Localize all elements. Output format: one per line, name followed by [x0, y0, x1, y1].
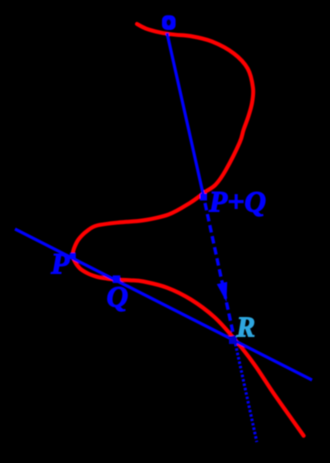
marker P+Q: [200, 194, 207, 201]
label O (identity element): [162, 15, 176, 30]
arrowhead on dashed segment: [217, 282, 227, 302]
marker Q: [113, 275, 121, 283]
dashed construction segment P+Q to R: [205, 203, 235, 340]
svg-text:Q: Q: [107, 281, 129, 314]
dashed segment below R: [235, 340, 257, 443]
marker R: [229, 336, 237, 344]
svg-text:P: P: [50, 248, 70, 281]
secant line through P and Q: [15, 229, 312, 380]
elliptic curve E (red cubic): [73, 24, 304, 436]
svg-text:R: R: [236, 313, 256, 344]
svg-text:P+Q: P+Q: [208, 186, 266, 219]
marker P: [70, 253, 76, 259]
line through O and P+Q (solid part): [167, 33, 204, 198]
